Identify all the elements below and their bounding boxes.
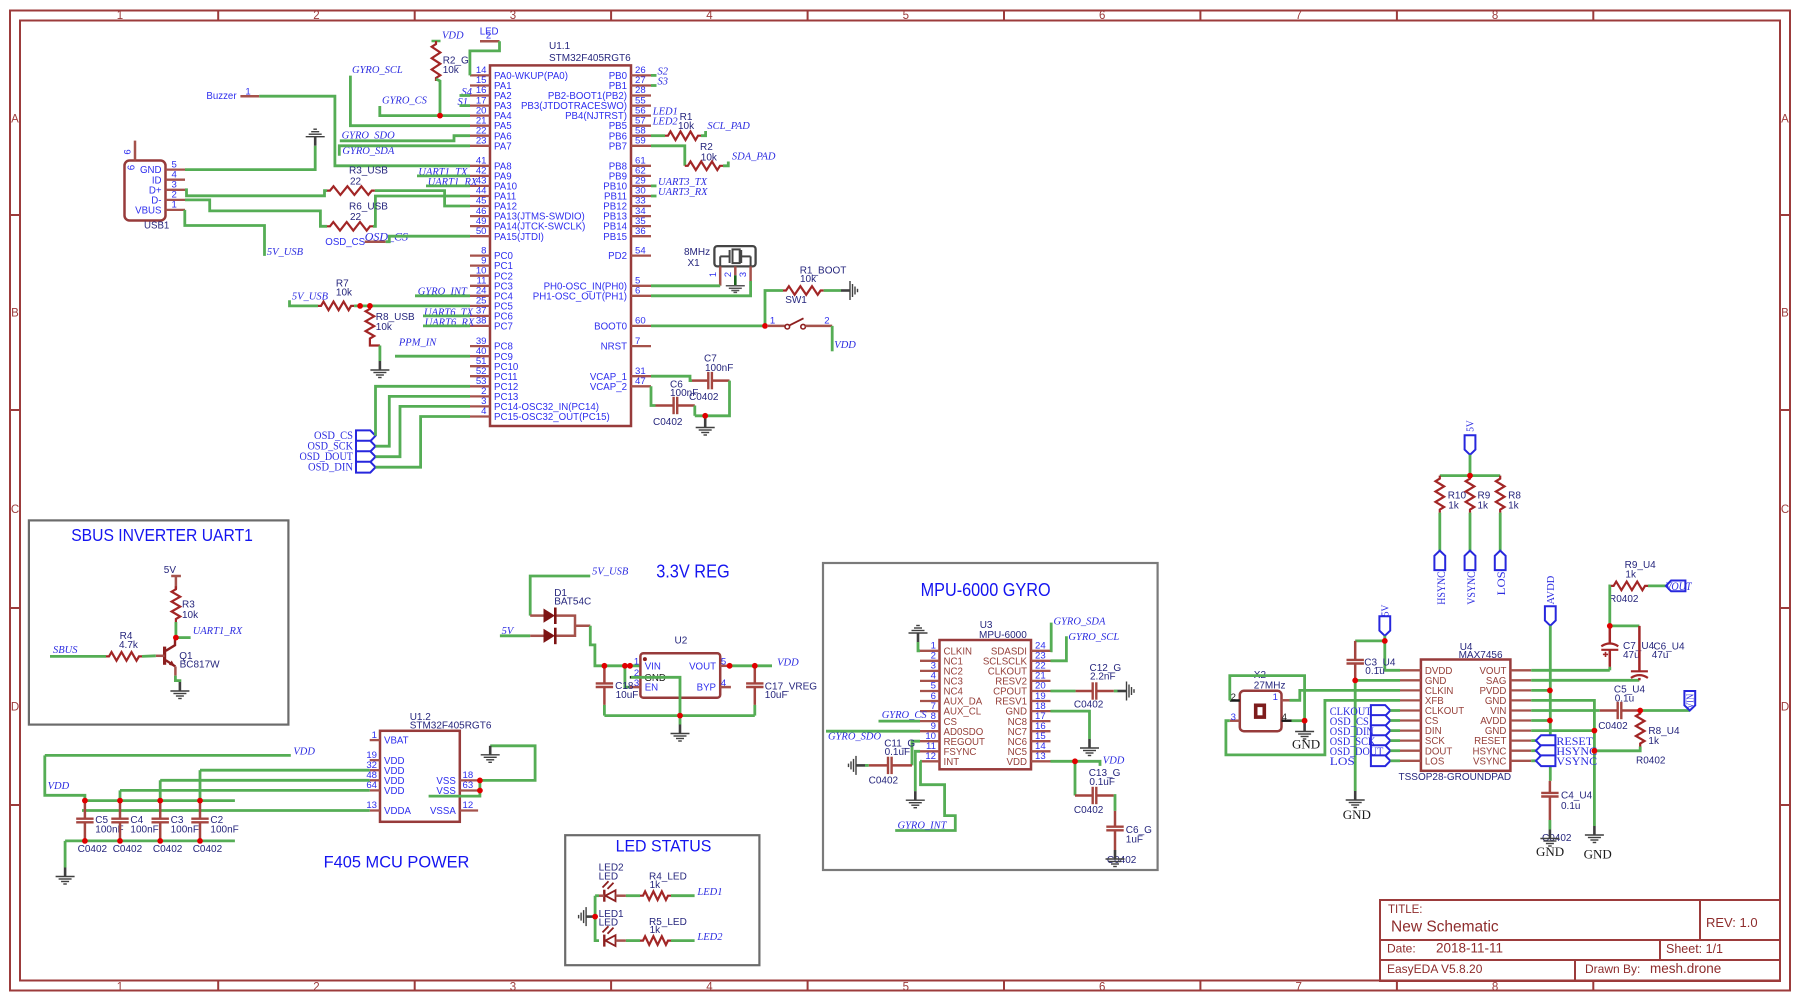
svg-text:U1.1: U1.1 [549,41,571,52]
diode LED2 cathode lead [599,894,604,897]
wire 5V to D1 anode2 [500,634,530,637]
connector USB1 body [125,161,166,221]
svg-text:C0402: C0402 [193,844,223,855]
svg-text:LOS: LOS [1494,571,1508,595]
IC U1.1 body [490,65,631,426]
port flag VOUT port [1666,581,1686,592]
svg-text:3: 3 [1231,712,1236,723]
U4 pin CS left [1400,719,1421,721]
U3 pin 18 (GND) [1031,710,1051,712]
wire U4 GND drop [1354,680,1357,791]
svg-text:0.1u: 0.1u [1561,801,1580,812]
U3 pin 2 (NC1) [920,660,940,662]
svg-text:2: 2 [723,272,733,277]
wire U3 CPOUT to C12_G [1051,690,1076,693]
svg-text:TSSOP28-GROUNDPAD: TSSOP28-GROUNDPAD [1399,772,1512,783]
svg-text:PD2: PD2 [608,251,627,262]
wire pullup rail [1440,474,1500,477]
wire R10 to HSYNC flag [1438,513,1441,551]
junction X2 ground node [1302,718,1308,724]
port flag VSYNC port [1465,551,1476,571]
U1.1 pin 37 (PC6) [470,315,490,317]
wire BOOT0 node up to R1_BOOT [765,291,783,326]
frame tick bottom 1 [217,981,219,991]
port flag HSYNC port [1434,551,1445,571]
wire D1 out to VIN rail [590,626,640,666]
wire C6 to ground rail [693,406,696,416]
crystal X2 body [1240,691,1282,731]
resistor R4 [106,652,142,661]
U4 pin VIN right [1510,709,1531,711]
ground at X1 [726,286,745,293]
wire 5V flag to DVDD node [1383,636,1386,641]
USB1 pin 3 (D+) [166,189,186,191]
svg-text:12: 12 [925,751,936,762]
svg-text:3: 3 [510,982,516,994]
svg-text:C0402: C0402 [653,417,683,428]
diode LED1 marks [603,926,614,934]
wire X2 pin2 loop to pin4 node [1230,676,1305,721]
U3 pin 12 (INT) [920,760,940,762]
U3 pin 3 (NC2) [920,670,940,672]
svg-text:USB1: USB1 [144,221,169,232]
junction VIN node pin [627,663,633,669]
U1.1 pin 4 (PC15-OSC32_OUT(PC15)) [470,415,490,417]
svg-text:B: B [11,308,19,320]
wire C11_G to ground [865,764,869,767]
wire Q1 emitter to ground [175,676,180,682]
U4 pin LOS left [1400,760,1421,762]
capacitor C11_G [869,757,912,774]
U1.1 pin 15 (PA1) [470,84,490,86]
wire HSYNC row stub [1531,749,1536,752]
svg-text:A: A [11,113,19,125]
svg-text:1: 1 [708,272,718,277]
svg-text:10k: 10k [182,610,199,621]
U4 pin CLKOUT left [1400,709,1421,711]
U4 pin GND right [1510,699,1531,701]
diode D1 output bracket [557,616,591,636]
wire C13_G to C6_G [1114,796,1115,811]
svg-text:VBUS: VBUS [135,206,162,217]
svg-text:5V_USB: 5V_USB [592,566,629,577]
wire UART1_RX to PA10 pin43 [426,184,470,187]
wire LED1 anode to R5_LED [626,939,640,942]
crystal X2 pin 1 [1282,699,1290,702]
svg-text:VBAT: VBAT [384,736,409,747]
wire OSD_CS at U4 flag stub [1390,719,1400,722]
section box LED STATUS [565,835,759,965]
port flag OSD_DIN at U4 [1371,725,1391,736]
U1.1 pin 51 (PC10) [470,365,490,367]
svg-text:4: 4 [706,10,713,22]
wire U3 GND pin18 to ground [1051,711,1090,739]
svg-text:2: 2 [1231,692,1236,703]
svg-text:1: 1 [1273,692,1278,703]
U1.1 pin 27 (PB1) [631,84,651,86]
wire LOS at U4 flag stub [1390,759,1400,762]
svg-text:F405 MCU POWER: F405 MCU POWER [324,853,470,871]
wire LED to PA0 pin14 [470,41,500,75]
capacitor C6_U4 [1631,626,1648,680]
svg-text:1k: 1k [1478,501,1490,512]
svg-text:GND: GND [1584,847,1612,862]
svg-text:R0402: R0402 [1609,594,1639,605]
wire U3 VDD to VDD flag [1051,761,1101,766]
wire R7 to PC5 pin25 [354,304,470,307]
transistor Q1 collector [166,638,175,651]
junction C5 bottom node [82,838,88,844]
U1.2 pin 12 (VSSA) [460,809,478,811]
wire OSD_SCK flag to PC13 pin2 [376,396,471,446]
U1.1 pin 55 (PB3(JTDOTRACESWO)) [631,104,651,106]
junction GND2 node [1592,728,1598,734]
port flag LOS at U4 [1371,755,1391,766]
svg-text:1: 1 [117,982,123,994]
resistor R7 [318,302,354,311]
svg-text:0.1uF: 0.1uF [1089,777,1115,788]
svg-text:C: C [1781,504,1789,516]
resistor R2 [685,162,723,171]
svg-text:63: 63 [463,780,474,791]
frame tick top 3 [610,11,612,21]
capacitor C18 [596,666,613,705]
svg-text:8: 8 [1492,982,1498,994]
R3 top lead [175,576,178,589]
U1.1 pin 46 (PA13(JTMS-SWDIO)) [470,215,490,217]
svg-text:C0402: C0402 [1598,721,1628,732]
frame tick right C [1780,607,1790,609]
wire U3 VDD to C13_G [1074,761,1077,795]
svg-text:VSYNC: VSYNC [1473,756,1506,767]
svg-text:47: 47 [635,376,646,387]
svg-text:10uF: 10uF [765,690,788,701]
capacitor C7_U4 [1601,626,1618,667]
svg-text:NRST: NRST [601,342,627,353]
svg-text:6: 6 [1099,10,1105,22]
U1.1 pin 47 (VCAP_2) [631,385,651,387]
switch SW1 pin 1 [768,325,785,328]
wire F405 ground drop [64,841,67,868]
svg-text:4: 4 [481,406,487,417]
capacitor C6 [656,397,695,414]
capacitor C6_G [1106,811,1123,850]
wire C4_U4 to ground [1549,820,1552,830]
title block outline [1380,900,1780,981]
svg-text:BAT54C: BAT54C [554,596,591,607]
U1.1 pin 62 (PB9) [631,175,651,177]
U1.1 pin 14 (PA0-WKUP(PA0)) [470,74,490,76]
frame tick bottom 3 [610,981,612,991]
U4 pin GND right [1510,729,1531,731]
U3 pin 17 (NC8) [1031,720,1051,722]
U1.1 pin 17 (PA3) [470,104,490,106]
svg-text:EasyEDA V5.8.20: EasyEDA V5.8.20 [1387,962,1483,976]
svg-text:C: C [11,504,19,516]
junction BOOT0 node [762,323,768,329]
U1.1 pin 26 (PB0) [631,74,651,76]
ground at U4 GND [1346,791,1365,808]
svg-text:VDD: VDD [1007,757,1027,768]
svg-text:10k: 10k [443,65,460,76]
svg-text:Buzzer: Buzzer [206,91,237,102]
IC U2 body [640,653,720,698]
svg-text:R3: R3 [182,600,195,611]
USB1 pin 4 (ID) [166,179,186,181]
wire C18 to rail [603,705,606,716]
svg-text:SDA_PAD: SDA_PAD [732,152,776,163]
U1.2 pin 64 (VDD) [370,789,380,791]
svg-text:GYRO_SDO: GYRO_SDO [828,731,882,742]
wire SBUS to R4 [50,655,106,658]
wire D- to PA11 pin44 [373,196,470,226]
IC U3 body [940,640,1032,769]
svg-text:10k: 10k [701,153,718,164]
wire EN to VIN [625,666,630,687]
svg-text:1k: 1k [650,925,662,936]
IC U2 pin 4 BYP lead [720,686,731,689]
svg-text:2: 2 [824,316,829,327]
svg-text:PC7: PC7 [494,322,513,333]
IC U2 pin 5 VOUT lead [720,665,731,668]
ground at U1.2 VSS [481,746,500,763]
svg-text:60: 60 [635,316,646,327]
capacitor C17_VREG [746,666,763,705]
svg-text:3.3V REG: 3.3V REG [656,562,730,582]
U1.2 pin 18 (VSS) [460,779,478,781]
wire R3 to junction [174,622,177,638]
wire GND row wire 2 [1531,729,1594,732]
wire UART3_TX stub pin29 [651,184,657,187]
wire LED rail left [595,896,599,941]
transistor Q1 emitter lead [174,667,177,676]
wire 5V to pullup rail [1469,455,1472,476]
diode D1a anode lead [530,614,543,617]
svg-text:VDD: VDD [442,31,464,42]
resistor R9_U4 [1611,582,1648,591]
svg-text:PC15-OSC32_OUT(PC15): PC15-OSC32_OUT(PC15) [494,412,610,423]
svg-text:UART1_RX: UART1_RX [193,626,243,637]
svg-text:GYRO_SDA: GYRO_SDA [1054,617,1107,628]
frame tick bottom 8 [1592,981,1594,991]
svg-text:GND: GND [1536,844,1564,859]
frame tick top 7 [1396,11,1398,21]
U1.1 pin 56 (PB4(NJTRST)) [631,114,651,116]
wire R9_U4 left drop [1608,586,1612,626]
ground at C12_G [1118,682,1135,701]
wire UART1_TX to PA9 pin42 [417,174,470,177]
frame tick left C [10,607,20,609]
U1.1 pin 16 (PA2) [470,94,490,96]
ground at C6_G [1106,850,1125,867]
wire USB GND to ground [185,146,315,170]
section box MPU-6000 [823,563,1158,870]
port flag OSD_SCK [356,441,376,452]
ground at F405 caps [56,868,75,885]
U1.1 pin 36 (PB15) [631,235,651,237]
IC U4 body [1421,660,1511,771]
svg-text:5V: 5V [1381,604,1392,616]
U4 pin DVDD left [1400,669,1421,671]
svg-text:5: 5 [903,10,909,22]
svg-text:R6_USB: R6_USB [349,202,388,213]
wire UART6_RX to PC7 pin38 [423,324,470,327]
U3 pin 20 (CPOUT) [1031,690,1051,692]
section box SBUS INVERTER [29,520,289,724]
U3 pin 14 (NC5) [1031,750,1051,752]
wire PVDD row wire [1531,689,1550,692]
junction C3 bottom node [157,838,163,844]
diode LED2 marks [603,881,614,889]
svg-text:7: 7 [1295,982,1301,994]
U1.1 pin 40 (PC9) [470,355,490,357]
U1.1 pin 49 (PA14(JTCK-SWCLK)) [470,225,490,227]
wire GYRO_SDA to PA7 pin23 [339,146,470,156]
frame tick bottom 5 [1003,981,1005,991]
crystal X1 pin 3 [749,266,752,281]
title block row line 2 [1380,959,1780,961]
svg-text:GYRO_SCL: GYRO_SCL [1068,632,1119,643]
junction C2 top node [197,798,203,804]
wire U3 SCLSCLK to GYRO_SCL [1051,636,1067,661]
svg-text:LED2: LED2 [696,932,723,943]
wire VDD pin32 wire [200,769,370,772]
frame tick right D [1780,804,1790,806]
wire R8_U4 to GND vertical [1594,747,1640,751]
IC U2 pin 2 GND lead [630,676,641,679]
svg-text:0.1uF: 0.1uF [885,747,911,758]
svg-text:VSSA: VSSA [430,806,456,817]
svg-text:6: 6 [127,165,138,170]
svg-text:1: 1 [634,656,639,667]
svg-text:SW1: SW1 [785,295,807,306]
port flag OSD_DOUT [356,451,376,462]
svg-text:C0402: C0402 [153,844,183,855]
junction LED rail ground node [592,914,598,920]
svg-text:4: 4 [706,982,713,994]
frame tick top 2 [414,11,416,21]
label C7_U4 plus [1603,652,1608,657]
title block row line 1 [1380,939,1780,941]
U3 pin 8 (CS) [920,720,940,722]
power flag VDD at R2_G [432,40,441,43]
svg-text:VDD: VDD [1103,756,1125,767]
svg-text:C0402: C0402 [113,844,143,855]
junction VIN node EN [622,663,628,669]
frame tick top 1 [217,11,219,21]
svg-text:100nF: 100nF [171,825,199,836]
svg-text:1: 1 [172,200,177,211]
U3 pin 11 (FSYNC) [920,750,940,752]
resistor R6_USB [327,222,373,231]
U1.1 pin 21 (PA5) [470,125,490,127]
connector OSD_CS pin [365,240,386,243]
wire 5V_USB hook at R7 [290,300,319,306]
IC U1.2 body [380,731,460,822]
svg-text:3: 3 [510,10,516,22]
wire UART6_TX to PC6 pin37 [423,314,470,317]
U1.1 pin 5 (PH0-OSC_IN(PH0)) [631,285,651,287]
switch SW1 contact a [785,324,790,329]
svg-text:C0402: C0402 [78,844,108,855]
U1.1 pin 42 (PA9) [470,175,490,177]
svg-text:10k: 10k [678,121,695,132]
title block rev divider [1699,900,1701,940]
svg-text:GYRO_CS: GYRO_CS [882,710,928,721]
resistor R10 [1436,476,1445,513]
U1.1 pin 58 (PB6) [631,135,651,137]
svg-text:BYP: BYP [697,683,716,694]
ground at USB [306,129,325,146]
svg-text:100nF: 100nF [670,388,698,399]
U1.1 pin 61 (PB8) [631,165,651,167]
wire AVDD vertical [1549,626,1552,781]
wire C2 riser [199,770,202,800]
port flag CLKOUT [1371,705,1391,716]
U1.1 pin 11 (PC3) [470,285,490,287]
svg-text:VSYNC: VSYNC [1556,754,1597,768]
svg-text:23: 23 [476,135,487,146]
wire R1_BOOT to ground [824,289,841,292]
frame tick left D [10,804,20,806]
svg-text:INT: INT [944,757,960,768]
U3 pin 16 (NC7) [1031,730,1051,732]
U1.1 pin 52 (PC11) [470,375,490,377]
wire VBUS to 5V_USB [185,210,265,256]
wire GYRO_SDO to PA6 pin22 [340,136,470,141]
frame tick bottom 6 [1199,981,1201,991]
wire R1 to SCL_PAD [701,131,706,136]
wire VSYNC row stub [1531,759,1536,762]
svg-text:VDD: VDD [384,786,404,797]
svg-text:PB7: PB7 [609,141,627,152]
wire PB6 to R1 [651,134,665,137]
U4 pin HSYNC right [1510,750,1531,752]
svg-text:SCL_PAD: SCL_PAD [707,121,750,132]
crystal X2 pin 4 [1282,719,1292,722]
wire PH1 to X1 pin3 [651,281,751,296]
junction R2_G / GYRO_CS / PA4 [437,113,443,119]
svg-text:Drawn By:: Drawn By: [1585,962,1640,976]
wire C7 to ground rail [695,381,730,416]
svg-text:LOS: LOS [1425,756,1445,767]
svg-text:AVDD: AVDD [1546,575,1557,604]
wire SW1 to VDD [831,326,834,351]
junction R8_U4 bottom node [1592,748,1598,754]
port flag OSD_DIN [356,462,376,473]
wire C17 to rail [753,705,756,716]
U4 pin SCK left [1400,739,1421,741]
transistor Q1 base lead [156,655,165,658]
junction AVDD-AVDD node [1547,718,1553,724]
wire GND row wire 1 [1531,700,1594,826]
U3 pin 6 (AUX_DA) [920,700,940,702]
wire C3 riser [159,780,162,800]
U4 pin VOUT right [1510,669,1531,671]
diode D1b [544,628,556,645]
svg-text:VOUT: VOUT [1666,579,1693,593]
frame tick top 8 [1592,11,1594,21]
wire U2 ground rail [604,714,754,717]
U1.1 pin 2 (PC13) [470,395,490,397]
svg-text:7: 7 [1295,10,1301,22]
svg-text:27MHz: 27MHz [1254,680,1286,691]
ground at U2 [671,725,690,742]
port flag AVDD port [1545,606,1556,626]
junction R7 out a [357,303,363,309]
port flag HSYNC port [1536,745,1556,756]
svg-text:UART3_RX: UART3_RX [658,187,708,198]
